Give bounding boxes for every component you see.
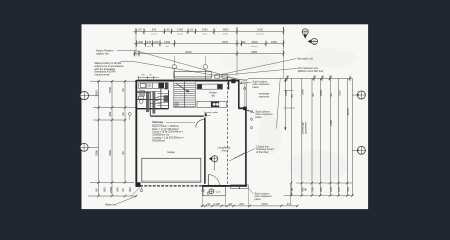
small marker mid left (128, 113, 131, 116)
sink circles (213, 103, 216, 106)
svg-text:90: 90 (329, 93, 333, 96)
bottom-left pier (136, 182, 141, 187)
staircase note block (152, 121, 184, 142)
storage under stairs label (204, 111, 218, 117)
svg-text:90: 90 (121, 112, 125, 115)
top-right wall column (231, 79, 235, 83)
right dim verticals (285, 78, 352, 195)
svg-text:890: 890 (108, 111, 112, 116)
bottom dim ticks center (201, 205, 298, 208)
porch inner line (203, 187, 205, 196)
dimension row 1 ticks (135, 27, 285, 35)
section bubble top 2 (308, 38, 318, 45)
svg-text:90: 90 (121, 151, 125, 154)
downpipe circles right wall (244, 87, 253, 128)
leader steel column top (241, 82, 252, 85)
left dim vertical x112 (111, 81, 113, 197)
svg-text:2560: 2560 (94, 150, 98, 156)
extension line x136 (135, 28, 137, 56)
svg-text:terrace: terrace (251, 45, 258, 48)
control dashed line (first floor extent) (227, 78, 229, 186)
svg-text:2360: 2360 (329, 120, 333, 126)
hatched wet wall 2 (152, 92, 155, 114)
svg-text:stairs: stairs (202, 33, 207, 36)
bottom dim line center (201, 205, 299, 207)
dimension row 2 numbers (139, 40, 278, 44)
svg-text:870: 870 (337, 187, 341, 192)
left dim horizontal y107.5 (93, 107, 137, 109)
hot water unit box (215, 75, 220, 78)
svg-text:Garage: Garage (167, 151, 175, 154)
grid bubble left B (80, 91, 98, 99)
extension line x237 (236, 27, 238, 76)
svg-text:900/280mm: 900/280mm (152, 139, 165, 142)
porch bubble (209, 189, 214, 194)
right upper wall (238, 80, 240, 109)
leader steel column bottom (248, 188, 254, 194)
svg-text:Area: Area (222, 149, 228, 152)
svg-text:1960: 1960 (202, 28, 208, 32)
svg-text:plans: plans (256, 115, 263, 119)
basin (155, 97, 158, 100)
dimension row 3 line (134, 53, 284, 55)
interior wall kitchen right (228, 81, 230, 90)
dimension row 1 numbers (139, 28, 264, 32)
svg-text:2310: 2310 (262, 202, 268, 206)
leader: waterproofing annotation (121, 62, 248, 81)
island dark end right (217, 84, 222, 89)
interior wall under kitchen (136, 108, 169, 110)
svg-text:plans: plans (255, 197, 262, 201)
balcony over rectangle (174, 72, 212, 79)
svg-text:Staircase: Staircase (152, 121, 163, 124)
svg-text:plans: plans (253, 85, 260, 89)
leader: capping line annotation (117, 51, 239, 80)
garage door arc (196, 120, 205, 128)
grid bubble right upper (352, 91, 365, 99)
right dim rotated numbers bottom (290, 187, 350, 192)
svg-text:11970: 11970 (346, 108, 350, 116)
left dim horizontal y81.2 (90, 80, 137, 82)
left dim vertical x98.5 (98, 81, 100, 197)
bottom wall garage door (dashed) (136, 185, 202, 187)
extension line x283.5 (283, 27, 285, 78)
annotation: waterproofing note (95, 61, 125, 76)
svg-text:wall: wall (147, 46, 151, 48)
svg-text:easement: easement (259, 95, 270, 98)
top wall inner line (137, 78, 239, 80)
hall wall vertical (204, 118, 206, 184)
svg-text:pantry: pantry (151, 33, 157, 36)
garage slab rectangle (142, 158, 201, 182)
leader: hot water unit (221, 59, 297, 75)
dimension row 1 line (134, 30, 284, 32)
marker stem (129, 115, 131, 120)
corridor wall (151, 115, 204, 117)
right dim arrowheads x285 (284, 79, 286, 131)
svg-text:2110: 2110 (337, 90, 341, 96)
island bench upper (197, 84, 223, 89)
svg-text:kitchen: kitchen (177, 33, 183, 36)
stair base patch (175, 102, 179, 107)
svg-text:Kitchen: Kitchen (209, 92, 217, 95)
fridge (139, 90, 145, 95)
stairs up arrow (177, 84, 189, 92)
leader from note (166, 121, 195, 123)
annotation: AC unit (298, 66, 324, 73)
bottom dim numbers center (207, 202, 291, 206)
dimension row 2 line (134, 43, 284, 45)
steel column note top (253, 79, 271, 89)
svg-text:2560: 2560 (108, 87, 112, 93)
svg-text:90: 90 (207, 202, 210, 206)
svg-text:balcony: balcony (257, 34, 264, 36)
annotation: Hanno Pataline capline line (96, 49, 114, 56)
right wall jog (238, 107, 246, 109)
leader control line (229, 149, 255, 162)
faint scan smudges (222, 48, 356, 182)
svg-text:90: 90 (167, 28, 170, 32)
bottom-left dim horizontal y182.5 (90, 182, 134, 184)
svg-text:590: 590 (128, 187, 132, 192)
svg-text:90: 90 (190, 28, 193, 32)
svg-text:90: 90 (139, 28, 142, 32)
svg-text:90: 90 (229, 202, 232, 206)
svg-text:1660: 1660 (271, 40, 277, 44)
left dim horizontal y120 (93, 119, 126, 121)
storage shelving under stairs (158, 90, 169, 109)
lower bench (197, 101, 226, 107)
svg-text:1000mm from Nbr bnd: 1000mm from Nbr bnd (298, 69, 324, 73)
water line leader (117, 196, 136, 204)
svg-text:1950: 1950 (319, 90, 323, 96)
svg-text:90: 90 (311, 93, 315, 96)
dimension row 3 numbers (186, 50, 258, 54)
svg-text:hall: hall (165, 46, 169, 48)
svg-text:760: 760 (311, 187, 315, 192)
diagonal strike living (234, 152, 246, 158)
entry door (208, 175, 219, 186)
left wall inner line (137, 82, 139, 185)
svg-text:requirements: requirements (95, 72, 111, 76)
island dark end left (197, 84, 202, 89)
leader: AC unit (227, 68, 297, 75)
dimension row 2 sub labels (147, 45, 258, 48)
grid bubble left D (80, 143, 98, 151)
section bubble mid plan (209, 156, 218, 171)
living label (218, 147, 232, 152)
mid wall in WC band (136, 99, 161, 101)
small symbol at storage (205, 113, 207, 116)
stairs (174, 81, 196, 107)
svg-text:6240: 6240 (186, 50, 192, 54)
svg-text:3130: 3130 (257, 28, 263, 32)
section bubble top 1 (302, 29, 308, 39)
svg-text:90: 90 (290, 94, 294, 97)
svg-text:porch: porch (216, 190, 221, 193)
steel column note bottom (255, 191, 273, 201)
ground floor wall under overhang (245, 84, 247, 108)
svg-text:450: 450 (102, 187, 106, 192)
steps right of porch (231, 185, 240, 189)
small dim above kitchen wall (138, 76, 159, 79)
window tag circle 2 (203, 65, 207, 80)
boundary dim ticks (286, 76, 352, 81)
svg-text:543: 543 (152, 28, 157, 32)
dimension row 1 sub labels (151, 33, 263, 36)
dark pantry strip (165, 82, 169, 89)
svg-text:2340: 2340 (301, 89, 305, 95)
svg-text:family: family (223, 34, 228, 36)
svg-text:830: 830 (139, 40, 144, 44)
svg-text:1130: 1130 (214, 202, 220, 206)
left dim vertical x125 (124, 81, 126, 184)
AC unit box (222, 74, 227, 78)
right dim rotated numbers top (284, 89, 341, 98)
svg-text:4390: 4390 (284, 90, 288, 96)
dimension row 2 ticks (135, 40, 285, 47)
bottom wall hatch ticks (206, 185, 240, 187)
right lower wall (245, 108, 247, 186)
column at jog (243, 107, 247, 111)
svg-text:3960: 3960 (108, 150, 112, 156)
extension stems to window tags (174, 56, 205, 65)
svg-text:90: 90 (121, 88, 125, 91)
dark appliance top bench (158, 83, 164, 89)
weep hole markers under bottom wall (140, 187, 209, 194)
svg-text:easement: easement (304, 122, 308, 134)
bottom-left rotated numbers (94, 187, 132, 193)
dark laundry strip (164, 95, 169, 102)
svg-text:410: 410 (287, 202, 292, 206)
left dim rotated numbers upper (94, 87, 125, 117)
dimension row 3 ticks (133, 51, 285, 57)
laundry bench lines (137, 91, 161, 103)
building top wall (136, 80, 239, 82)
svg-text:240: 240 (116, 187, 120, 192)
svg-text:9470: 9470 (222, 40, 228, 44)
hatched wet wall 1 (146, 93, 149, 113)
svg-text:2810: 2810 (252, 40, 258, 44)
svg-text:2560: 2560 (109, 187, 113, 193)
toilet (138, 96, 143, 104)
svg-text:capline line: capline line (96, 52, 109, 56)
bottom-left dim horizontal y196 (88, 195, 137, 197)
svg-text:90: 90 (94, 188, 98, 191)
svg-text:Water line: Water line (105, 202, 117, 206)
bracket line right (276, 79, 280, 129)
drawing sheet (82, 24, 369, 209)
right dim rotated numbers middle (301, 108, 350, 134)
svg-text:3800: 3800 (223, 28, 229, 32)
stud column note (256, 109, 274, 119)
kitchen bench top (139, 83, 167, 88)
svg-text:240: 240 (147, 40, 152, 44)
boundary dim line right top (248, 77, 353, 79)
bottom wall solid right (202, 185, 247, 187)
building left wall (135, 80, 137, 186)
svg-text:240: 240 (239, 202, 244, 206)
lower bench dark middle (211, 102, 219, 107)
svg-text:1400: 1400 (164, 40, 170, 44)
svg-text:90: 90 (303, 188, 307, 191)
garage slab inner bottom line (142, 180, 201, 182)
eave lines right of building (239, 80, 248, 83)
grid bubble right lower (352, 146, 365, 154)
svg-text:1300: 1300 (177, 28, 183, 32)
svg-text:410: 410 (346, 187, 350, 192)
window tag circle 1 (172, 65, 176, 80)
leader bottom-left corner (131, 187, 141, 197)
left dim ticks (97, 80, 126, 121)
control line note (256, 144, 274, 154)
left dim rotated numbers lower (94, 150, 125, 156)
svg-text:910: 910 (329, 187, 333, 192)
svg-text:90: 90 (121, 188, 125, 191)
svg-text:90: 90 (242, 40, 245, 44)
svg-text:900: 900 (319, 187, 323, 192)
extra bench divider (148, 83, 151, 87)
right dim horizontal ticks (284, 90, 354, 195)
svg-text:240: 240 (154, 40, 159, 44)
leader stud column (248, 110, 255, 112)
bottom-left dim ticks (97, 181, 137, 197)
WC room walls (137, 89, 161, 117)
right dim tick slashes bottom (290, 182, 354, 197)
porch outline (202, 187, 225, 196)
sewerage text (259, 93, 270, 99)
svg-text:Living/Meals: Living/Meals (218, 147, 232, 149)
kitchen label (209, 92, 217, 98)
bottom dim extension verticals (203, 183, 291, 207)
